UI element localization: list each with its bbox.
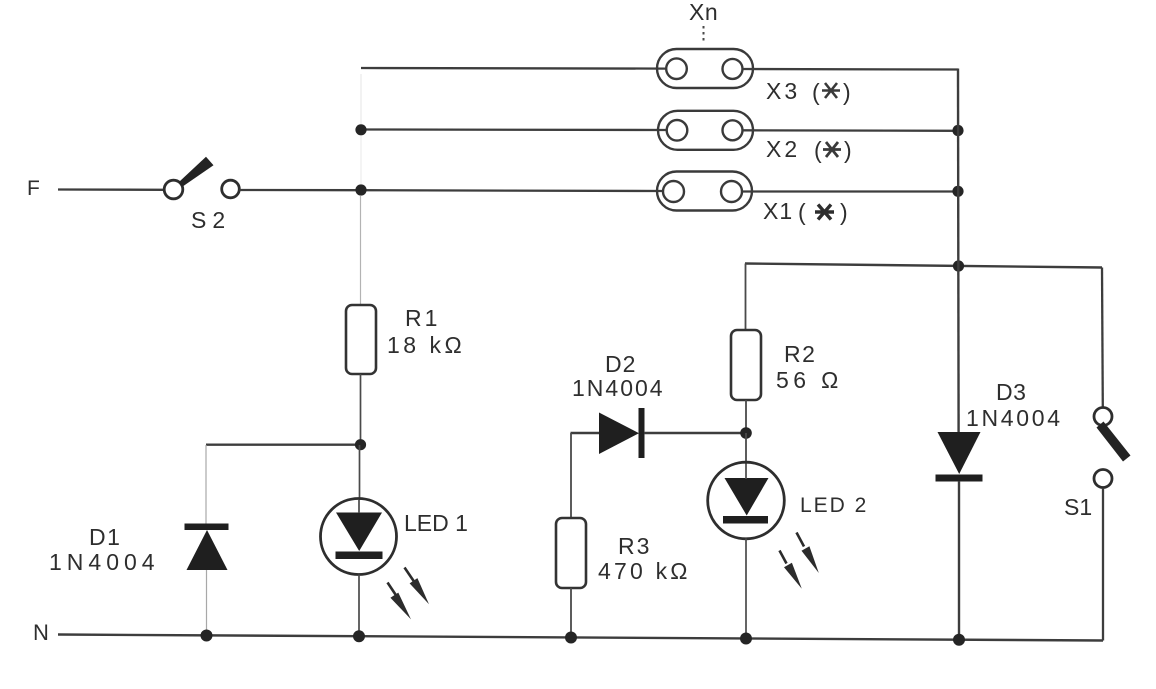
svg-text:1N4004: 1N4004 xyxy=(49,549,160,575)
diode D2 xyxy=(599,408,645,458)
svg-text:18 kΩ: 18 kΩ xyxy=(387,332,465,358)
svg-text:(: ( xyxy=(812,79,820,105)
wire X1 row right xyxy=(743,190,958,192)
svg-text:X2: X2 xyxy=(766,136,800,162)
svg-text:470 kΩ: 470 kΩ xyxy=(598,558,691,584)
wire X2 row left xyxy=(361,128,667,131)
svg-text:R2: R2 xyxy=(784,341,816,367)
wire R3 to N xyxy=(570,588,572,637)
diode D1 xyxy=(185,524,229,571)
junction dot above LED1 xyxy=(355,439,366,450)
junction dot N at D3 xyxy=(953,634,965,646)
wire F input xyxy=(58,188,164,191)
wire D2 right lead xyxy=(644,432,746,434)
svg-text:N: N xyxy=(33,620,49,645)
LED2 light arrow upper xyxy=(797,533,819,574)
wire faint D1 to N xyxy=(206,570,208,637)
svg-text:S2: S2 xyxy=(191,207,231,233)
wire S2 to left branch xyxy=(240,189,362,191)
resistor R2 xyxy=(731,330,761,400)
junction dot N at LED1 xyxy=(353,630,365,642)
wire X2 row right xyxy=(743,129,958,132)
LED1 light arrow upper xyxy=(405,568,430,605)
wire faint left branch to R1 xyxy=(360,196,362,304)
wire LED2 to N xyxy=(745,539,747,639)
svg-text:D1: D1 xyxy=(89,524,121,550)
svg-text:LED 1: LED 1 xyxy=(404,510,468,536)
junction dot right main X1 xyxy=(952,186,963,197)
wire right main vertical lower xyxy=(958,481,960,641)
LED1 light arrow lower xyxy=(388,583,412,620)
wire junction to LED1 xyxy=(359,445,361,500)
wire X1 row left xyxy=(361,189,664,192)
switch S1 xyxy=(1094,408,1131,488)
junction dot N at R3 xyxy=(565,632,577,644)
label X2 (*) xyxy=(766,136,852,163)
resistor R1 xyxy=(346,305,376,374)
lamp X3 xyxy=(657,49,753,88)
LED LED2 xyxy=(708,462,785,539)
svg-text:R1: R1 xyxy=(405,305,440,331)
junction dot N at D1 xyxy=(201,630,213,642)
svg-text:R3: R3 xyxy=(618,533,651,559)
wire far right vertical upper xyxy=(1101,268,1104,409)
svg-text:56 Ω: 56 Ω xyxy=(776,367,843,393)
diode D3 xyxy=(936,432,983,482)
wire horizontal D1 branch top xyxy=(206,444,361,446)
wire R1 to LED1 junction xyxy=(360,374,362,445)
wire right main vertical upper xyxy=(957,69,960,433)
wire faint D1 branch upper xyxy=(205,445,207,524)
svg-text:): ) xyxy=(843,79,851,105)
wire mid horizontal xyxy=(745,264,1102,268)
wire R2 to junction xyxy=(745,400,747,433)
svg-text:D3: D3 xyxy=(996,379,1026,405)
svg-text:Xn: Xn xyxy=(689,0,718,25)
svg-text:X3: X3 xyxy=(766,78,800,104)
junction dot D2/R2/LED2 xyxy=(740,427,752,439)
svg-text:): ) xyxy=(844,137,852,163)
junction dot right main X2 xyxy=(952,125,963,136)
svg-text:(: ( xyxy=(798,199,806,225)
label X1 (*) xyxy=(763,198,848,225)
svg-text:S1: S1 xyxy=(1064,494,1092,520)
wire LED1 to N xyxy=(358,575,360,638)
junction dot mid wire xyxy=(953,260,964,271)
wire N bottom rail xyxy=(58,635,1103,641)
junction dot left branch X2 xyxy=(355,124,366,135)
LED LED1 xyxy=(321,499,397,575)
svg-text:X1: X1 xyxy=(763,198,793,224)
label X3 (*) xyxy=(766,78,851,105)
label Xn xyxy=(689,0,718,25)
wire dotted lead to Xn xyxy=(703,26,705,42)
svg-text:D2: D2 xyxy=(605,351,636,377)
wire faint left branch upper (scan-faded) xyxy=(360,74,362,124)
resistor R3 xyxy=(556,518,586,588)
svg-text:(: ( xyxy=(814,137,822,163)
wire D2 left lead xyxy=(571,432,600,434)
switch S2 xyxy=(164,157,239,199)
svg-text:): ) xyxy=(840,199,848,225)
wire far right vertical lower xyxy=(1102,488,1104,641)
wire mid to R2 xyxy=(745,264,747,332)
wire X3 row right xyxy=(743,68,958,71)
svg-text:F: F xyxy=(27,177,40,200)
LED2 light arrow lower xyxy=(780,551,802,589)
svg-text:1N4004: 1N4004 xyxy=(572,375,665,401)
junction dot N at LED2 xyxy=(740,633,752,645)
wire R3 branch upper xyxy=(570,433,572,519)
lamp X1 xyxy=(657,172,752,211)
wire X3 row left xyxy=(361,67,667,70)
svg-text:LED 2: LED 2 xyxy=(800,494,868,517)
wire junction to LED2 xyxy=(745,433,747,464)
lamp X2 xyxy=(658,111,753,150)
junction dot left branch X1 xyxy=(355,184,366,195)
svg-text:1N4004: 1N4004 xyxy=(966,405,1063,431)
